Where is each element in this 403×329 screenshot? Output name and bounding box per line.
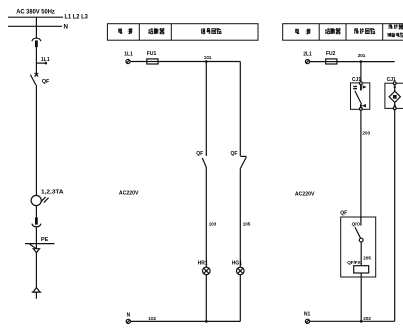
terminal N: [127, 313, 131, 319]
earth tap diagonal: [30, 244, 37, 249]
wire node 203: [360, 110, 362, 217]
svg-text:FU1: FU1: [147, 51, 157, 57]
wire main incomer: [35, 17, 37, 38]
contactor contact CJ1 (drawout): [352, 77, 361, 83]
wire: [35, 85, 37, 195]
connector socket (female) bottom: [32, 224, 41, 227]
svg-text:FU2: FU2: [326, 51, 336, 57]
node 1L1 tap: [36, 62, 45, 64]
connector pin (male) bottom: [35, 217, 38, 224]
svg-text:QF/FX: QF/FX: [347, 260, 361, 265]
header text 电 源: [119, 28, 133, 34]
wire phase: [130, 61, 240, 63]
svg-text:N: N: [64, 23, 69, 30]
svg-text:HG1: HG1: [232, 260, 243, 266]
terminal 2L1: [303, 52, 312, 58]
contact QF (NO aux): [196, 151, 203, 157]
lamp HG1: [232, 260, 243, 266]
svg-text:203: 203: [362, 131, 370, 136]
junction: [205, 320, 208, 323]
wire: [35, 206, 37, 218]
svg-text:QF: QF: [340, 211, 347, 217]
svg-text:HR1: HR1: [198, 260, 208, 266]
fuse FU1: [147, 51, 157, 57]
terminal 1L1: [124, 52, 133, 58]
wire neutral 202: [310, 320, 395, 322]
node 103: [209, 221, 217, 226]
fuse FU2: [326, 51, 336, 57]
wire: [35, 227, 37, 249]
label 1,2,3TA: [41, 190, 64, 196]
svg-text:AC220V: AC220V: [295, 192, 315, 198]
lamp HR1: [198, 260, 208, 266]
header text 保护器 / 辅助电路: [389, 25, 403, 30]
connector pin (male) top: [35, 40, 38, 47]
wire: [35, 47, 37, 74]
svg-text:N: N: [127, 313, 131, 319]
svg-text:PE: PE: [41, 237, 49, 243]
header text 熔断器: [149, 28, 165, 33]
switch inside QF box: [360, 217, 362, 226]
node 105: [243, 221, 251, 226]
svg-text:1L1: 1L1: [41, 57, 50, 63]
svg-text:L1 L2 L3: L1 L2 L3: [65, 14, 89, 21]
svg-text:105: 105: [243, 221, 251, 226]
label AC220V: [295, 192, 315, 198]
wire phase: [310, 61, 395, 63]
breaker box QF: [340, 211, 347, 217]
header text 保护回路: [354, 28, 374, 34]
earth electrode: [33, 288, 40, 293]
wire to CJ1 contact: [360, 62, 362, 82]
node 101: [205, 60, 208, 63]
wire branch HR1: [205, 62, 207, 157]
node 201: [360, 60, 363, 63]
svg-text:AC 380V 50Hz: AC 380V 50Hz: [16, 9, 55, 16]
svg-text:103: 103: [209, 221, 217, 226]
contactor coil CJ1 (drawout): [387, 77, 396, 83]
connector socket (female) top: [32, 38, 41, 41]
svg-text:101: 101: [204, 55, 212, 60]
bus N: [8, 25, 62, 27]
header text 电 源: [296, 29, 311, 35]
coil QF/FX: [347, 260, 361, 265]
earth arrow: [33, 249, 39, 253]
label AC 380V 50Hz: [16, 9, 55, 16]
node label N: [64, 23, 69, 30]
label PE: [41, 237, 49, 243]
wire: [239, 275, 241, 322]
breaker QF: [35, 73, 39, 77]
contact QF (NC aux): [231, 151, 238, 157]
PE bar: [25, 243, 55, 245]
table protection circuit header: [283, 24, 403, 41]
svg-text:102: 102: [148, 316, 156, 321]
node 205: [363, 256, 371, 261]
wire: [205, 275, 207, 322]
svg-text:1,2,3TA: 1,2,3TA: [41, 190, 64, 196]
svg-text:QF: QF: [231, 151, 238, 157]
current transformer 1,2,3TA: [31, 195, 41, 205]
header text 熔断器: [325, 28, 340, 33]
wire branch HG1: [239, 62, 241, 156]
bus L1 L2 L3: [8, 16, 63, 18]
node label L1 L2 L3: [65, 14, 89, 21]
svg-text:2L1: 2L1: [303, 52, 312, 58]
svg-text:205: 205: [363, 256, 371, 261]
header text 信号回路: [201, 28, 221, 33]
wire: [35, 253, 37, 288]
junction 202: [360, 320, 363, 323]
svg-text:1L1: 1L1: [124, 52, 133, 58]
svg-text:201: 201: [358, 53, 366, 58]
wire to neutral: [360, 273, 362, 321]
svg-text:202: 202: [363, 316, 371, 321]
svg-text:QF: QF: [42, 79, 50, 85]
label AC220V: [119, 190, 139, 196]
svg-text:N1: N1: [304, 312, 311, 318]
table signal circuit header: [107, 24, 258, 41]
wire right branch down: [394, 110, 396, 322]
terminal N1: [304, 312, 311, 318]
svg-text:QF: QF: [196, 151, 203, 157]
svg-text:Q/O: Q/O: [352, 221, 361, 226]
svg-text:AC220V: AC220V: [119, 190, 139, 196]
wire neutral 102: [130, 320, 240, 322]
